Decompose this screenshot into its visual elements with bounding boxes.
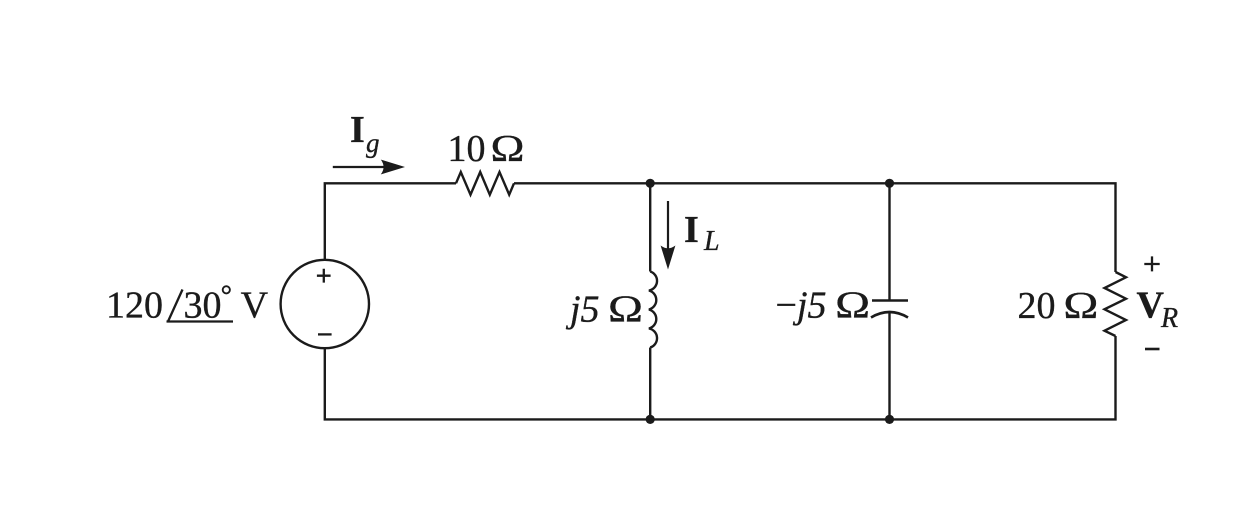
svg-text:Ω: Ω	[608, 289, 643, 331]
svg-text:−: −	[776, 285, 797, 327]
svg-text:Ω: Ω	[1063, 285, 1098, 327]
svg-text:g: g	[366, 128, 380, 158]
VR minus sign	[1145, 348, 1160, 351]
capacitor C1 bottom curved plate	[871, 312, 908, 318]
current arrow IL	[661, 201, 676, 270]
current arrow Ig	[333, 160, 405, 175]
svg-text:Ω: Ω	[491, 128, 525, 170]
svg-text:V: V	[241, 284, 269, 326]
node junction dot top right	[885, 179, 894, 188]
label current IL	[684, 209, 720, 257]
svg-text:I: I	[350, 109, 365, 151]
source minus sign	[318, 333, 332, 335]
label voltage VR	[1137, 284, 1179, 334]
label source value 120/30deg V	[106, 284, 269, 326]
svg-text:20: 20	[1018, 285, 1056, 327]
svg-text:j5: j5	[565, 289, 600, 331]
label C1 value -j5 ohm	[776, 285, 871, 327]
svg-text:Ω: Ω	[835, 285, 870, 327]
degree symbol circle	[223, 286, 230, 293]
wire: top segment from R1 to top right corner and down	[514, 183, 1116, 272]
wire: inductor branch upper	[649, 183, 651, 271]
capacitor C1 top plate	[872, 299, 908, 302]
svg-text:j5: j5	[792, 285, 827, 327]
VR plus sign	[1144, 256, 1159, 271]
wire: inductor branch lower	[649, 348, 651, 420]
angle symbol underline	[167, 320, 234, 322]
svg-text:R: R	[1160, 303, 1178, 334]
svg-text:I: I	[684, 209, 699, 251]
svg-text:L: L	[703, 226, 720, 257]
svg-text:120: 120	[106, 284, 163, 326]
wire: capacitor branch upper	[888, 183, 890, 300]
node junction dot bottom right	[885, 415, 894, 424]
wire: capacitor branch lower	[888, 312, 890, 420]
wire: bottom rail with both corners	[325, 336, 1116, 419]
wire: top left segment from source corner to R1	[325, 183, 456, 260]
source plus sign	[317, 269, 331, 283]
label L1 value j5 ohm	[565, 289, 643, 331]
inductor L1 coil	[649, 272, 657, 348]
resistor R1 10ohm zigzag	[456, 172, 514, 195]
svg-text:30: 30	[184, 284, 222, 326]
label R2 value 20 ohm	[1018, 285, 1099, 327]
svg-text:10: 10	[448, 128, 486, 170]
resistor R2 20ohm vertical zigzag	[1105, 272, 1127, 336]
node junction dot top left	[646, 179, 655, 188]
angle symbol slash	[168, 290, 183, 322]
voltage source V1 circle	[281, 260, 369, 348]
label current Ig	[350, 109, 380, 158]
node junction dot bottom left	[646, 415, 655, 424]
